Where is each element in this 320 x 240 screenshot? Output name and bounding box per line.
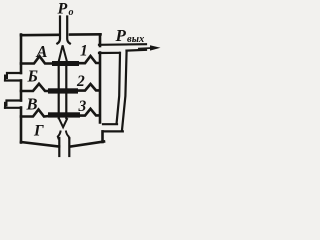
membrane rigid center bar 1	[52, 61, 79, 66]
membrane M3 line left	[21, 110, 49, 117]
output channel top wall	[99, 43, 146, 46]
membrane rigid center bar 3	[48, 112, 80, 117]
output arrow	[138, 47, 152, 50]
input 2 bottom wall end cap	[4, 103, 6, 108]
svg-text:вых: вых	[127, 34, 144, 45]
right branch channel wall left	[117, 53, 120, 123]
block bottom edge left segment	[21, 142, 59, 147]
stem tube wall right	[65, 62, 67, 118]
block right edge upper segment	[99, 34, 102, 46]
right branch elbow bottom wall	[103, 130, 123, 132]
stem lower cone arrow	[59, 119, 67, 127]
block left edge	[20, 35, 23, 74]
svg-text:В: В	[26, 94, 38, 113]
svg-text:P: P	[115, 26, 127, 45]
output channel bottom wall right segment	[127, 49, 147, 52]
supply channel wall right	[67, 17, 70, 44]
input 1 bottom wall	[5, 79, 21, 81]
membrane M1 line left	[21, 56, 52, 63]
membrane M2 line right	[78, 84, 100, 91]
membrane rigid center bar 2	[48, 88, 78, 93]
membrane M3 line right	[80, 109, 100, 116]
svg-text:Г: Г	[33, 123, 44, 140]
block top edge left segment	[21, 33, 58, 36]
block top edge right segment	[70, 33, 101, 36]
bottom nozzle flare left	[58, 132, 61, 139]
block right edge main segment	[99, 53, 102, 123]
supply channel wall left	[57, 17, 60, 44]
input 1 bottom wall end cap	[4, 76, 6, 81]
wire left edge lower segment	[20, 108, 23, 143]
input 1 top wall	[7, 72, 21, 74]
stem tube wall left	[58, 62, 60, 118]
stem upper cone arrow	[59, 45, 67, 61]
svg-text:P: P	[57, 1, 68, 18]
vent channel wall right	[68, 138, 70, 156]
input 2 bottom wall	[5, 107, 21, 109]
svg-text:Б: Б	[27, 66, 39, 85]
block bottom edge right segment	[71, 142, 105, 147]
input 2 top wall	[7, 99, 22, 101]
svg-text:o: o	[69, 7, 74, 18]
right branch elbow top wall	[103, 123, 117, 125]
svg-text:3: 3	[78, 98, 87, 115]
wire left edge mid segment	[20, 81, 23, 101]
bottom nozzle flare right	[66, 132, 69, 139]
paper background	[0, 0, 178, 164]
membrane M2 line left	[21, 84, 49, 91]
right branch channel wall right	[122, 51, 127, 130]
input 1 top wall end cap	[6, 73, 8, 78]
svg-text:2: 2	[76, 73, 85, 90]
input 2 top wall end cap	[6, 101, 8, 106]
svg-text:А: А	[36, 42, 48, 61]
vent channel wall left	[58, 138, 60, 156]
membrane M1 line right	[79, 56, 100, 63]
block right edge lower segment	[101, 131, 104, 142]
output channel bottom wall left segment	[99, 52, 120, 54]
svg-text:1: 1	[80, 43, 88, 60]
